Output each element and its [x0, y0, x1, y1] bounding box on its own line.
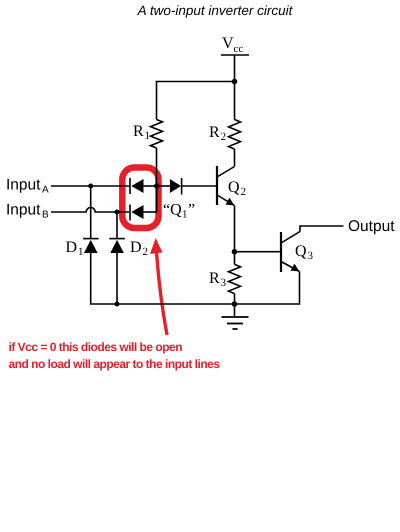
svg-text:Input: Input [6, 202, 41, 219]
diode Q1 input B (cathode left) [130, 205, 157, 221]
Vcc label [222, 35, 243, 55]
svg-text:R: R [209, 270, 220, 287]
wire Vcc stem [234, 55, 236, 82]
diode series level-shift (anode left) [157, 178, 182, 195]
wire D2 to ground rail [116, 253, 118, 304]
wire Q2 emitter down [234, 206, 236, 252]
svg-text:A: A [42, 185, 49, 196]
svg-text:V: V [222, 35, 234, 52]
svg-text:R: R [209, 124, 220, 141]
svg-text:Q: Q [295, 243, 307, 260]
input label InputA [6, 177, 49, 196]
svg-text:B: B [42, 210, 49, 221]
wire ground rail [117, 303, 235, 305]
transistor Q3 [281, 232, 314, 273]
wire top rail to R1 [157, 82, 235, 120]
wire R2 to Q2 collector [234, 149, 236, 167]
diode D1 branch wire [90, 186, 92, 239]
svg-text:Input: Input [6, 177, 41, 194]
svg-text:1: 1 [182, 209, 188, 221]
svg-text:3: 3 [308, 250, 314, 262]
annotation red box around input diodes [122, 168, 158, 229]
Vcc supply bar [221, 54, 249, 56]
wire Q3 collector to output [300, 226, 344, 232]
svg-text:Q: Q [228, 179, 240, 196]
resistor R2 [209, 120, 241, 150]
svg-text:cc: cc [234, 43, 244, 55]
svg-text:1: 1 [78, 246, 84, 258]
node supply junction [232, 79, 238, 85]
node diode junction [154, 183, 159, 188]
svg-text:and no load will appear to the: and no load will appear to the input lin… [9, 357, 221, 371]
wire supply to R2 [234, 82, 236, 120]
diode D2 branch wire [116, 212, 118, 239]
node InputB / D2 junction [115, 210, 120, 215]
wire to Q3 base [235, 251, 281, 253]
wire R1 to node Q1 anode [156, 148, 158, 186]
annotation red arrow [150, 238, 167, 335]
transistor Q2 [217, 166, 246, 206]
node InputA / D1 junction [88, 184, 93, 189]
diode D1 (cathode up) [66, 239, 99, 258]
wire D1 to ground rail [91, 253, 117, 304]
node Q2 emitter junction [232, 249, 238, 255]
svg-text:Output: Output [348, 218, 395, 235]
wire InputB with hopover [51, 208, 129, 213]
svg-text:2: 2 [221, 131, 227, 143]
diode Q1 input A (cathode left) [130, 178, 157, 194]
label "Q1" [163, 202, 195, 221]
svg-text:2: 2 [241, 186, 247, 198]
svg-text:1: 1 [145, 130, 151, 142]
svg-text:“Q: “Q [163, 202, 182, 219]
svg-text:D: D [130, 239, 142, 256]
wire Q3 emitter return [235, 272, 300, 305]
wire to Q2 base [182, 185, 216, 187]
resistor R1 [133, 120, 163, 149]
svg-text:if Vcc = 0 this diodes will be: if Vcc = 0 this diodes will be open [9, 340, 183, 354]
svg-text:R: R [133, 123, 144, 140]
wire InputA [51, 185, 129, 187]
svg-text:2: 2 [143, 246, 149, 258]
svg-text:D: D [66, 239, 78, 256]
resistor R3 [209, 252, 241, 304]
ground [222, 304, 249, 329]
input label InputB [6, 202, 49, 221]
wire B branch up to node [156, 186, 158, 212]
node D2 ground junction [115, 302, 120, 307]
node ground junction [232, 301, 238, 307]
svg-text:3: 3 [221, 277, 227, 289]
svg-text:A two-input inverter circuit: A two-input inverter circuit [137, 3, 294, 18]
diode D2 (cathode up) [109, 239, 148, 258]
svg-text:”: ” [188, 202, 195, 219]
